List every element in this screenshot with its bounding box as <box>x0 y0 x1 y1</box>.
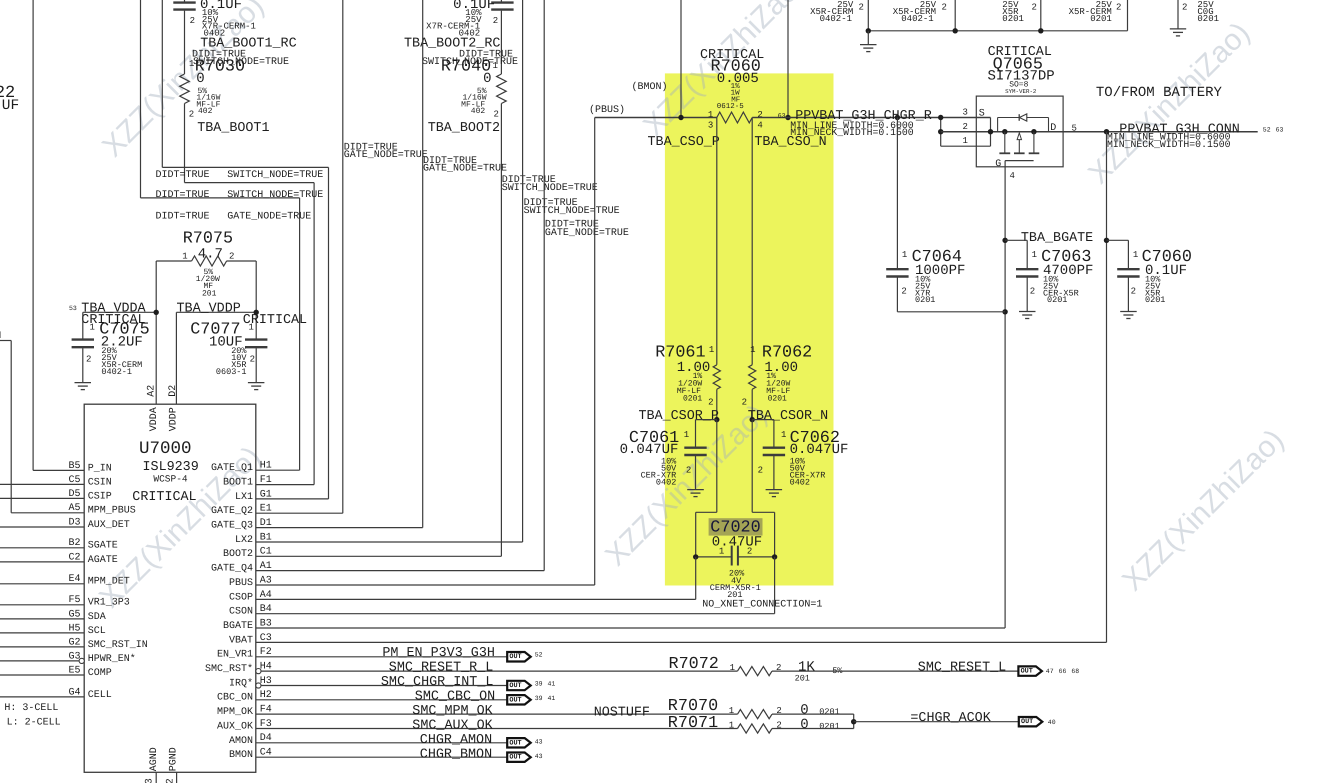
svg-text:E1: E1 <box>260 504 272 515</box>
capacitor 0.1UF (TBA_BOOT1_RC) <box>173 0 256 74</box>
junction <box>714 417 719 422</box>
net label TBA_CSOR_N <box>748 409 828 424</box>
svg-text:SMC_RST_IN: SMC_RST_IN <box>88 640 148 651</box>
capacitor (25V X5R-CERM 0402-1) b <box>893 0 955 31</box>
pin D label <box>1050 123 1056 134</box>
svg-text:39: 39 <box>535 695 543 702</box>
svg-text:68: 68 <box>1071 668 1079 675</box>
svg-text:1: 1 <box>493 61 498 71</box>
svg-text:AUX_OK: AUX_OK <box>217 721 253 732</box>
svg-text:0612-5: 0612-5 <box>717 102 745 111</box>
wire drain to VBAT (C3) <box>256 132 1109 643</box>
svg-text:CSOP: CSOP <box>229 592 253 603</box>
svg-text:SYM-VER-2: SYM-VER-2 <box>1005 88 1037 95</box>
wire TBA_VDDA net <box>83 261 159 404</box>
svg-text:SWITCH_NODE=TRUE: SWITCH_NODE=TRUE <box>502 183 598 194</box>
net SMC_MPM_OK row <box>256 704 738 721</box>
svg-text:UF: UF <box>2 98 19 114</box>
wire P_IN (B5) <box>33 0 84 470</box>
net label TBA_CSOR_P <box>639 409 719 424</box>
svg-text:AGATE: AGATE <box>88 555 118 566</box>
svg-text:OUT: OUT <box>1021 718 1033 726</box>
svg-text:1: 1 <box>729 706 734 716</box>
net CHGR_BMON <box>256 747 543 762</box>
svg-text:0.047UF: 0.047UF <box>790 442 849 458</box>
svg-text:B1: B1 <box>260 532 272 543</box>
svg-text:VDDA: VDDA <box>149 407 160 431</box>
source ladder wires <box>938 115 991 146</box>
wire SWITCH_NODE chain to LX1 (G1) <box>162 0 328 499</box>
property pair x343 <box>344 143 428 161</box>
pin 1 label <box>963 136 968 146</box>
svg-text:GATE_NODE=TRUE: GATE_NODE=TRUE <box>423 163 507 174</box>
junction <box>785 115 790 120</box>
net label TO/FROM BATTERY <box>1096 85 1223 101</box>
net CHGR_AMON <box>256 733 543 748</box>
svg-text:SMC_CBC_ON: SMC_CBC_ON <box>415 689 495 704</box>
svg-text:TBA_BOOT1: TBA_BOOT1 <box>197 121 269 136</box>
svg-text:GATE_NODE=TRUE: GATE_NODE=TRUE <box>227 212 311 223</box>
svg-text:0201: 0201 <box>1197 14 1219 24</box>
svg-text:CBC_ON: CBC_ON <box>217 693 253 704</box>
wire COMP (E5) <box>0 674 84 676</box>
wire to LX2 (B1) <box>256 0 523 542</box>
property DIDT row (R7040) <box>422 50 518 68</box>
pin 4 label <box>1010 171 1015 181</box>
svg-text:A3: A3 <box>260 575 272 586</box>
resistor R7072 <box>669 655 1019 683</box>
svg-text:0: 0 <box>196 71 204 87</box>
svg-text:1: 1 <box>1032 250 1037 260</box>
svg-text:R7072: R7072 <box>669 655 719 674</box>
wire HPWR_EN* (G3) with bubble <box>0 658 84 663</box>
svg-text:4: 4 <box>757 121 762 131</box>
svg-text:0201: 0201 <box>1090 14 1112 24</box>
svg-text:0402-1: 0402-1 <box>901 14 933 24</box>
svg-text:OUT: OUT <box>509 754 521 762</box>
svg-text:0402: 0402 <box>656 477 676 487</box>
svg-text:0201: 0201 <box>1047 295 1067 305</box>
svg-text:0201: 0201 <box>819 707 839 717</box>
svg-text:S: S <box>979 109 985 120</box>
svg-text:A2: A2 <box>146 385 157 397</box>
net label CRITICAL (C7077) <box>243 313 307 328</box>
property DIDT row (R7030) <box>192 50 289 68</box>
svg-text:63: 63 <box>1276 126 1284 133</box>
svg-text:2: 2 <box>250 354 255 364</box>
svg-text:A1: A1 <box>260 561 272 572</box>
wire SDA (G5) <box>0 618 84 620</box>
capacitor C7064 <box>886 115 1005 312</box>
svg-text:PBUS: PBUS <box>229 578 253 589</box>
svg-text:2: 2 <box>859 3 864 13</box>
svg-text:H: H <box>0 331 1 342</box>
svg-text:A4: A4 <box>260 590 272 601</box>
drain row wire <box>941 129 1258 134</box>
svg-text:D2: D2 <box>168 385 179 397</box>
svg-text:GATE_NODE=TRUE: GATE_NODE=TRUE <box>344 150 428 161</box>
wire BMON drop <box>680 0 682 118</box>
svg-text:4.7: 4.7 <box>198 246 223 262</box>
ground <box>860 31 877 52</box>
svg-text:B4: B4 <box>260 604 272 615</box>
net SMC_RESET_R_L row <box>261 661 738 676</box>
svg-text:SMC_RESET_R_L: SMC_RESET_R_L <box>389 661 493 676</box>
wire CSOR_N to C7020 pin2 <box>752 420 774 557</box>
svg-text:1: 1 <box>90 323 95 333</box>
wire R7060 to Q7065 <box>752 117 990 119</box>
transistor Q7065 box <box>976 96 1063 167</box>
net label PPVBAT_G3H_CONN <box>1107 122 1284 149</box>
capacitor C7061 <box>620 420 717 497</box>
svg-text:40: 40 <box>1048 719 1056 726</box>
svg-text:2: 2 <box>1116 3 1121 13</box>
svg-text:OUT: OUT <box>509 696 521 704</box>
wire SMC_RST_IN (G2) <box>0 646 84 648</box>
svg-text:43: 43 <box>535 753 543 760</box>
svg-text:0: 0 <box>800 717 808 733</box>
wire PBUS to PBUS pin (A3) <box>256 118 717 586</box>
svg-text:SDA: SDA <box>88 612 106 623</box>
wire SGATE (B2) <box>0 547 84 549</box>
capacitor (25V X5R-CERM 0201) <box>1069 0 1128 31</box>
svg-text:2: 2 <box>758 466 763 476</box>
net label TBA_BOOT1_RC <box>200 36 296 51</box>
svg-text:TBA_VDDP: TBA_VDDP <box>177 302 241 317</box>
svg-text:OUT: OUT <box>509 682 521 690</box>
resistor R7070 <box>668 697 854 719</box>
svg-text:1: 1 <box>963 136 968 146</box>
svg-text:43: 43 <box>535 738 543 745</box>
svg-text:EN_VR1: EN_VR1 <box>217 650 253 661</box>
svg-text:2: 2 <box>189 109 194 119</box>
net label CRITICAL (C7075) <box>81 313 145 328</box>
svg-text:GATE_Q3: GATE_Q3 <box>211 521 253 532</box>
wire CSIN (C5) <box>0 483 84 485</box>
svg-text:2: 2 <box>757 110 762 120</box>
svg-text:U7000: U7000 <box>139 439 192 459</box>
svg-text:D1: D1 <box>260 518 272 529</box>
svg-text:(PBUS): (PBUS) <box>589 104 625 116</box>
svg-text:402: 402 <box>198 107 213 116</box>
svg-text:0201: 0201 <box>1002 14 1024 24</box>
svg-text:1: 1 <box>730 663 735 673</box>
svg-text:52: 52 <box>535 652 543 659</box>
svg-text:201: 201 <box>795 673 810 683</box>
capacitor (25V X5R 0201) <box>1002 0 1041 31</box>
capacitor C7075 <box>72 312 150 389</box>
net label TBA_BOOT2 <box>428 121 500 136</box>
svg-text:TBA_CSOR_N: TBA_CSOR_N <box>748 409 828 424</box>
resistor R7062 <box>742 344 813 420</box>
svg-text:SMC_CHGR_INT_L: SMC_CHGR_INT_L <box>381 675 494 690</box>
svg-text:0201: 0201 <box>768 395 787 404</box>
svg-text:2: 2 <box>942 3 947 13</box>
junction <box>750 417 755 422</box>
svg-text:0402-1: 0402-1 <box>101 367 132 377</box>
svg-text:2: 2 <box>86 354 91 364</box>
capacitor C7062 <box>752 420 848 497</box>
pin 5 label <box>1072 123 1077 133</box>
svg-text:SWITCH_NODE=TRUE: SWITCH_NODE=TRUE <box>227 190 323 201</box>
svg-text:CELL: CELL <box>88 690 112 701</box>
svg-text:TBA_CSO_N: TBA_CSO_N <box>754 135 826 150</box>
cell note <box>4 703 60 729</box>
svg-text:2: 2 <box>190 16 195 26</box>
svg-text:TBA_CSO_P: TBA_CSO_P <box>648 135 720 150</box>
svg-text:2: 2 <box>1131 287 1136 297</box>
svg-text:C1: C1 <box>260 547 272 558</box>
wire CSO drop <box>787 0 789 118</box>
wire C7020 pin1 to CSOP (A4) <box>256 557 696 600</box>
svg-text:CSON: CSON <box>229 607 253 618</box>
svg-text:2: 2 <box>166 778 177 783</box>
svg-text:F1: F1 <box>260 475 272 486</box>
svg-text:SWITCH_NODE=TRUE: SWITCH_NODE=TRUE <box>227 170 323 181</box>
svg-text:SGATE: SGATE <box>88 541 118 552</box>
wire AGATE (C2) <box>0 561 84 563</box>
yellow highlight region <box>665 73 834 585</box>
svg-text:VBAT: VBAT <box>229 635 253 646</box>
wire top bus <box>868 30 1127 32</box>
svg-text:CSIN: CSIN <box>88 477 112 488</box>
svg-text:201: 201 <box>202 289 217 298</box>
svg-text:VDDP: VDDP <box>169 407 180 431</box>
svg-text:TO/FROM BATTERY: TO/FROM BATTERY <box>1096 85 1223 101</box>
svg-text:MPM_OK: MPM_OK <box>217 707 253 718</box>
resistor R7061 <box>655 344 720 420</box>
ic U7000 left pin names <box>68 461 147 701</box>
svg-text:1: 1 <box>708 110 713 120</box>
svg-text:0201: 0201 <box>915 295 935 305</box>
net label TBA_BGATE <box>1021 231 1093 246</box>
svg-text:1: 1 <box>182 251 187 261</box>
svg-text:=CHGR_ACOK: =CHGR_ACOK <box>910 711 991 726</box>
svg-text:2: 2 <box>229 251 234 261</box>
svg-text:1: 1 <box>729 720 734 730</box>
pin bubbles SMC_RST*/IRQ* <box>256 669 261 689</box>
net label TBA_BOOT2_RC <box>404 36 500 51</box>
svg-text:MPM_PBUS: MPM_PBUS <box>88 506 136 517</box>
svg-text:DIDT=TRUE: DIDT=TRUE <box>156 170 210 181</box>
svg-text:R7071: R7071 <box>668 714 718 733</box>
net ref 53 <box>69 305 77 312</box>
capacitor C7063 <box>1005 240 1093 318</box>
net SMC_AUX_OK row <box>256 718 738 733</box>
svg-text:IRQ*: IRQ* <box>229 677 253 689</box>
svg-text:HPWR_EN*: HPWR_EN* <box>88 653 136 665</box>
svg-text:2: 2 <box>901 287 906 297</box>
svg-text:DIDT=TRUE: DIDT=TRUE <box>156 212 210 223</box>
svg-text:0201: 0201 <box>1145 295 1165 305</box>
junction <box>953 28 958 33</box>
resistor R7075 <box>156 230 256 299</box>
svg-text:BGATE: BGATE <box>223 621 253 632</box>
svg-text:3: 3 <box>963 107 968 117</box>
property pair x423 <box>423 156 507 174</box>
svg-text:NOSTUFF: NOSTUFF <box>594 706 650 721</box>
svg-text:2: 2 <box>686 466 691 476</box>
svg-text:OUT: OUT <box>509 653 521 661</box>
net EN_VR1 / PM_EN_P3V3_G3H <box>256 646 543 661</box>
transistor Q7065 labels <box>988 45 1055 95</box>
net label TBA_CSO_P <box>648 135 720 150</box>
wire VR1_3P3 (F5) <box>0 604 84 606</box>
svg-text:41: 41 <box>548 681 556 688</box>
wire gate chain to BGATE (B3) <box>256 161 1008 628</box>
svg-text:41: 41 <box>548 695 556 702</box>
wire CSOR_P to C7020 pin1 <box>696 420 717 557</box>
svg-text:TBA_CSOR_P: TBA_CSOR_P <box>639 409 719 424</box>
wire GATE_NODE chain to GATE_Q1 (H1) <box>141 0 300 470</box>
svg-text:4: 4 <box>1010 171 1015 181</box>
svg-text:AMON: AMON <box>229 736 253 747</box>
svg-text:LX1: LX1 <box>235 492 253 503</box>
svg-text:2: 2 <box>494 109 499 119</box>
wire TBA_VDDP net <box>176 261 259 404</box>
cut net label fragment <box>0 331 1 342</box>
svg-text:SMC_RESET_L: SMC_RESET_L <box>918 660 1006 675</box>
svg-text:1: 1 <box>249 323 254 333</box>
resistor R7030 <box>180 58 245 120</box>
svg-text:53: 53 <box>69 305 77 312</box>
pin G label <box>995 159 1001 170</box>
svg-text:C3: C3 <box>260 633 272 644</box>
property pair x524 <box>524 198 620 217</box>
pin label A2 <box>146 385 157 397</box>
svg-text:LX2: LX2 <box>235 535 253 546</box>
property pair x545 <box>545 220 629 239</box>
svg-text:MIN_NECK_WIDTH=0.1500: MIN_NECK_WIDTH=0.1500 <box>1107 139 1231 150</box>
pin 3 label <box>963 107 968 117</box>
svg-text:OUT: OUT <box>509 739 521 747</box>
svg-text:BOOT1: BOOT1 <box>223 477 253 488</box>
wire C7020 pin2 to CSON (B4) <box>256 557 775 614</box>
svg-text:0603-1: 0603-1 <box>216 367 247 377</box>
svg-text:H: 3-CELL: H: 3-CELL <box>4 703 58 714</box>
pin 2 label <box>963 122 968 132</box>
body diode <box>998 114 1049 132</box>
svg-text:SMC_AUX_OK: SMC_AUX_OK <box>412 718 493 733</box>
net label (BMON) <box>632 81 668 93</box>
net label TBA_BOOT1 <box>197 121 269 136</box>
svg-text:2: 2 <box>1032 3 1037 13</box>
resistor R7060 (sense) <box>700 48 764 131</box>
svg-text:BOOT2: BOOT2 <box>223 549 253 560</box>
capacitor (25V C0G 0201) with ground <box>1170 0 1219 36</box>
capacitor C7077 <box>190 321 267 390</box>
svg-text:NO_XNET_CONNECTION=1: NO_XNET_CONNECTION=1 <box>702 600 822 611</box>
pin S label <box>979 109 985 120</box>
svg-text:3: 3 <box>708 121 713 131</box>
svg-text:0402: 0402 <box>790 477 810 487</box>
svg-text:L: 2-CELL: L: 2-CELL <box>7 718 61 729</box>
svg-text:H1: H1 <box>260 461 272 472</box>
svg-text:GATE_Q1: GATE_Q1 <box>211 463 253 474</box>
capacitor C7020 (highlighted) <box>693 518 822 610</box>
svg-text:2: 2 <box>747 547 752 557</box>
wire SCL (H5) <box>0 632 84 634</box>
capacitor C7060 (0.1UF) <box>1107 240 1192 318</box>
cut component value 22uF <box>0 84 19 114</box>
svg-text:AGND: AGND <box>149 747 160 771</box>
resistor R7040 <box>441 58 506 120</box>
ic U7000 right pin names <box>205 461 272 761</box>
svg-text:OUT: OUT <box>1021 668 1033 676</box>
svg-text:66: 66 <box>1059 668 1067 675</box>
svg-text:GATE_Q4: GATE_Q4 <box>211 564 253 575</box>
svg-text:CSIP: CSIP <box>88 491 112 502</box>
svg-text:GATE_NODE=TRUE: GATE_NODE=TRUE <box>545 228 629 239</box>
ic U7000 labels <box>132 439 198 505</box>
svg-text:1: 1 <box>684 430 689 440</box>
wire CELL (G4) <box>0 696 84 698</box>
svg-text:1: 1 <box>719 547 724 557</box>
svg-text:1: 1 <box>902 250 907 260</box>
svg-text:0201: 0201 <box>819 721 839 731</box>
svg-text:2: 2 <box>1030 287 1035 297</box>
svg-text:0402-1: 0402-1 <box>820 14 852 24</box>
net label TBA_VDDA <box>81 302 146 317</box>
svg-text:SWITCH_NODE=TRUE: SWITCH_NODE=TRUE <box>524 206 620 217</box>
svg-text:0201: 0201 <box>683 395 702 404</box>
net label PPVBAT_G3H_CHGR_R <box>778 109 932 138</box>
ic U7000 box <box>84 404 256 772</box>
net label TBA_CSO_N <box>754 135 826 150</box>
svg-text:PGND: PGND <box>169 747 180 771</box>
svg-text:1: 1 <box>189 59 194 69</box>
svg-text:GATE_Q2: GATE_Q2 <box>211 506 253 517</box>
svg-text:DIDT=TRUE: DIDT=TRUE <box>156 190 210 201</box>
svg-text:G: G <box>995 159 1001 170</box>
net SMC_CHGR_INT_L <box>261 675 555 690</box>
wire CSIP (D5) <box>0 497 84 499</box>
svg-text:D: D <box>1050 123 1056 134</box>
svg-text:0.047UF: 0.047UF <box>620 442 679 458</box>
wire CHGR_ACOK <box>851 714 1019 728</box>
property rows left <box>156 170 324 223</box>
net SMC_RESET_L <box>918 660 1080 676</box>
svg-text:VR1_3P3: VR1_3P3 <box>88 598 130 609</box>
svg-text:1: 1 <box>1133 250 1138 260</box>
svg-text:2: 2 <box>1182 3 1187 13</box>
svg-text:63: 63 <box>778 113 786 120</box>
svg-text:1: 1 <box>750 345 755 355</box>
net label TBA_VDDP <box>177 302 241 317</box>
property pair x502 <box>502 175 598 194</box>
resistor R7071 <box>668 714 854 733</box>
svg-text:CHGR_AMON: CHGR_AMON <box>420 733 492 748</box>
svg-text:3: 3 <box>145 778 156 783</box>
ic U7000 bottom pins <box>145 407 180 783</box>
svg-text:TBA_BGATE: TBA_BGATE <box>1021 231 1093 246</box>
wire to GATE_Q3 (D1) <box>256 0 423 528</box>
svg-text:MPM_DET: MPM_DET <box>88 577 130 588</box>
svg-text:COMP: COMP <box>88 668 112 679</box>
svg-text:2: 2 <box>742 398 747 408</box>
svg-text:SCL: SCL <box>88 626 106 637</box>
svg-text:(BMON): (BMON) <box>632 81 668 93</box>
svg-text:CHGR_BMON: CHGR_BMON <box>420 747 492 762</box>
svg-text:G1: G1 <box>260 489 272 500</box>
svg-text:2: 2 <box>963 122 968 132</box>
wire to GATE_Q2 (E1) <box>256 0 343 513</box>
mosfet structure <box>999 129 1039 161</box>
capacitor (25V X5R-CERM 0402-1) a <box>810 0 868 31</box>
capacitor 0.1UF (TBA_BOOT2_RC) <box>426 0 513 74</box>
wire AUX_DET (D3) <box>0 526 84 528</box>
pin label D2 <box>168 385 179 397</box>
